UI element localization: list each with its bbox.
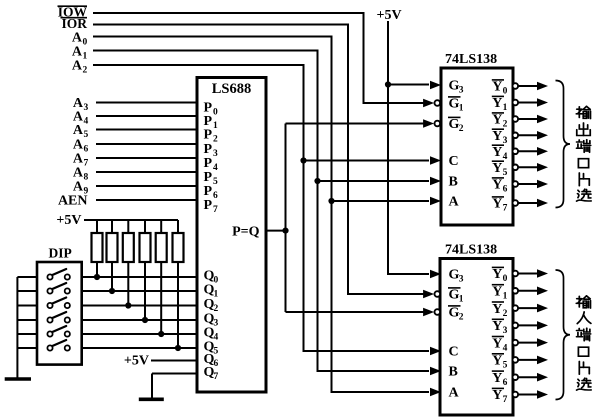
svg-text:2: 2 — [213, 135, 218, 145]
svg-text:P: P — [204, 198, 213, 213]
svg-text:0: 0 — [503, 274, 508, 284]
svg-text:0: 0 — [213, 108, 218, 118]
svg-text:74LS138: 74LS138 — [445, 52, 497, 67]
svg-text:1: 1 — [83, 52, 88, 62]
svg-text:P: P — [204, 184, 213, 199]
svg-text:1: 1 — [459, 295, 464, 305]
svg-text:2: 2 — [503, 309, 508, 319]
svg-text:Y: Y — [492, 113, 502, 128]
svg-text:+5V: +5V — [377, 8, 402, 23]
svg-text:7: 7 — [503, 395, 508, 405]
svg-text:+5V: +5V — [124, 354, 149, 369]
svg-text:6: 6 — [503, 378, 508, 388]
svg-text:Y: Y — [492, 96, 502, 111]
svg-text:5: 5 — [84, 130, 89, 140]
svg-text:P: P — [204, 156, 213, 171]
svg-text:3: 3 — [459, 275, 464, 285]
svg-text:6: 6 — [503, 185, 508, 195]
svg-text:AEN: AEN — [58, 194, 88, 209]
svg-text:A: A — [449, 386, 460, 401]
svg-text:Y: Y — [492, 178, 502, 193]
svg-text:Y: Y — [492, 319, 502, 334]
svg-text:Y: Y — [492, 267, 502, 282]
svg-text:C: C — [449, 154, 459, 169]
svg-text:A: A — [72, 31, 83, 46]
svg-text:7: 7 — [84, 159, 89, 169]
svg-text:5: 5 — [503, 361, 508, 371]
svg-text:3: 3 — [503, 326, 508, 336]
svg-text:Y: Y — [492, 197, 502, 212]
svg-text:P: P — [204, 142, 213, 157]
svg-text:6: 6 — [84, 145, 89, 155]
svg-text:3: 3 — [84, 103, 89, 113]
svg-text:A: A — [449, 195, 460, 210]
svg-text:Y: Y — [492, 285, 502, 300]
svg-text:A: A — [72, 45, 83, 60]
svg-text:2: 2 — [503, 120, 508, 130]
svg-text:A: A — [72, 59, 83, 74]
svg-text:2: 2 — [459, 124, 464, 134]
svg-text:5: 5 — [503, 168, 508, 178]
svg-text:3: 3 — [213, 149, 218, 159]
svg-text:Y: Y — [492, 354, 502, 369]
svg-text:Y: Y — [492, 80, 502, 95]
svg-text:Y: Y — [492, 371, 502, 386]
svg-text:1: 1 — [503, 103, 508, 113]
svg-text:4: 4 — [503, 343, 508, 353]
svg-text:1: 1 — [459, 104, 464, 114]
svg-text:A: A — [73, 138, 84, 153]
svg-text:Y: Y — [492, 161, 502, 176]
svg-text:5: 5 — [213, 177, 218, 187]
svg-text:8: 8 — [84, 173, 89, 183]
svg-text:4: 4 — [213, 163, 218, 173]
svg-text:P: P — [204, 170, 213, 185]
svg-text:6: 6 — [213, 191, 218, 201]
svg-text:7: 7 — [214, 372, 219, 382]
svg-text:0: 0 — [83, 38, 88, 48]
svg-text:0: 0 — [503, 87, 508, 97]
svg-text:1: 1 — [213, 121, 218, 131]
svg-text:7: 7 — [213, 205, 218, 215]
svg-text:A: A — [73, 180, 84, 195]
svg-text:C: C — [449, 345, 459, 360]
svg-text:B: B — [449, 365, 458, 380]
svg-text:2: 2 — [83, 66, 88, 76]
svg-text:LS688: LS688 — [212, 81, 252, 97]
svg-text:4: 4 — [84, 117, 89, 127]
svg-text:Y: Y — [492, 388, 502, 403]
svg-text:3: 3 — [459, 86, 464, 96]
svg-text:P=Q: P=Q — [232, 225, 260, 240]
svg-text:Y: Y — [492, 145, 502, 160]
svg-text:2: 2 — [459, 313, 464, 323]
svg-text:A: A — [73, 123, 84, 138]
svg-text:A: A — [73, 166, 84, 181]
svg-text:Y: Y — [492, 129, 502, 144]
svg-text:P: P — [204, 128, 213, 143]
svg-text:Y: Y — [492, 336, 502, 351]
svg-text:+5V: +5V — [56, 213, 81, 228]
svg-text:1: 1 — [503, 292, 508, 302]
svg-text:DIP: DIP — [49, 246, 72, 261]
svg-text:A: A — [73, 152, 84, 167]
svg-text:B: B — [449, 175, 458, 190]
svg-text:Y: Y — [492, 302, 502, 317]
svg-text:7: 7 — [503, 204, 508, 214]
svg-text:74LS138: 74LS138 — [445, 243, 497, 258]
